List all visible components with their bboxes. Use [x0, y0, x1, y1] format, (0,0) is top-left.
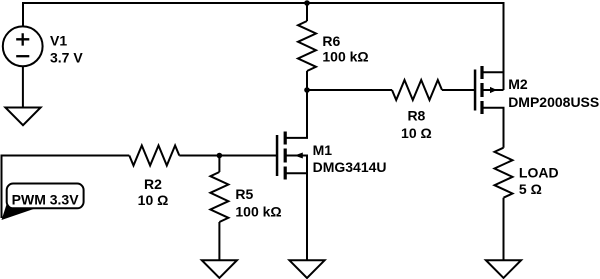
svg-text:5 Ω: 5 Ω — [519, 181, 542, 197]
svg-text:M2: M2 — [508, 76, 528, 92]
svg-text:R2: R2 — [144, 176, 162, 192]
svg-text:10 Ω: 10 Ω — [138, 192, 169, 208]
svg-text:PWM 3.3V: PWM 3.3V — [12, 191, 80, 207]
svg-text:DMP2008USS: DMP2008USS — [508, 94, 599, 110]
svg-text:LOAD: LOAD — [519, 165, 559, 181]
svg-text:100 kΩ: 100 kΩ — [235, 203, 281, 219]
svg-text:M1: M1 — [313, 142, 333, 158]
svg-text:10 Ω: 10 Ω — [401, 125, 432, 141]
svg-text:R6: R6 — [322, 33, 340, 49]
svg-text:100 kΩ: 100 kΩ — [322, 49, 368, 65]
svg-text:3.7 V: 3.7 V — [50, 49, 83, 65]
svg-text:R8: R8 — [407, 108, 425, 124]
svg-text:V1: V1 — [50, 32, 67, 48]
svg-text:R5: R5 — [235, 186, 253, 202]
svg-text:DMG3414U: DMG3414U — [313, 159, 387, 175]
